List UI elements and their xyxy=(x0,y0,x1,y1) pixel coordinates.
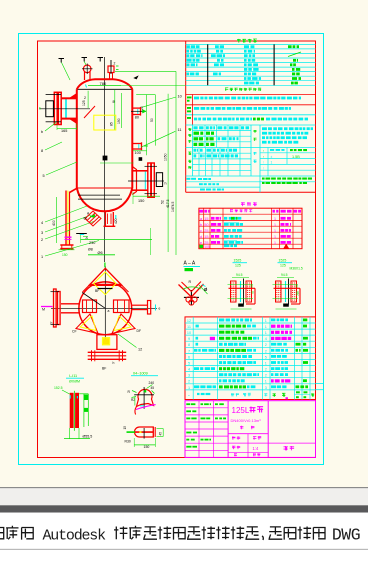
flange: left plate with dot fill xyxy=(276,281,282,302)
cyan tick top left shell xyxy=(86,85,87,88)
detail handhole: green bracket right xyxy=(157,428,164,430)
svg-text:04–1009: 04–1009 xyxy=(133,372,148,376)
black baseline under hatch xyxy=(76,233,87,235)
svg-text:Autodesk: Autodesk xyxy=(43,528,107,545)
svg-text:1: 1 xyxy=(274,223,276,227)
status: comma xyxy=(262,536,263,540)
svg-text:52: 52 xyxy=(296,292,300,296)
svg-text:2: 2 xyxy=(84,96,86,100)
svg-text:↑: ↑ xyxy=(263,149,265,153)
top view: green tick above lug xyxy=(104,263,106,268)
flange: red right bracket xyxy=(299,288,301,304)
svg-text:e: e xyxy=(159,307,161,311)
svg-text:45: 45 xyxy=(159,432,163,436)
manhole weld flare bottom xyxy=(70,119,77,124)
svg-text:1050: 1050 xyxy=(164,153,168,161)
BOM: magenta blob row4 col2 xyxy=(210,337,215,340)
svg-text:1474.5: 1474.5 xyxy=(171,202,175,212)
nozzle table: col lines xyxy=(203,208,205,249)
svg-text:1: 1 xyxy=(265,361,267,365)
top view: gusset LL xyxy=(76,314,98,334)
svg-text:417.5: 417.5 xyxy=(166,199,170,208)
nozzle table: cyan underline marks xyxy=(224,222,239,224)
svg-text:±: ± xyxy=(271,155,273,159)
svg-text:60: 60 xyxy=(84,217,88,221)
svg-text:8: 8 xyxy=(188,343,190,347)
svg-text:230: 230 xyxy=(89,241,95,245)
svg-text:h: h xyxy=(51,321,53,325)
top nozzle a: flange circle with cross xyxy=(83,65,91,73)
material table: left col separator xyxy=(192,125,194,176)
top view: horizontal centerline xyxy=(51,307,157,309)
svg-text:R: R xyxy=(189,280,192,284)
svg-text:1: 1 xyxy=(274,229,276,233)
detail handhole: bottom dim xyxy=(134,444,155,446)
detail I-I: green label blobs xyxy=(84,395,88,401)
top view: lug inner yellow rhombus xyxy=(94,272,117,295)
title block: scale cells xyxy=(232,436,240,439)
detail I-I: bottom extension lines xyxy=(69,428,71,439)
front view: bottom tangent xyxy=(77,187,133,189)
svg-text:Ø6: Ø6 xyxy=(98,251,103,255)
svg-text:6: 6 xyxy=(188,355,190,359)
nozzle 100: green hline under xyxy=(133,150,147,152)
material table: cols sec2 cyan xyxy=(198,148,200,177)
svg-text:1: 1 xyxy=(274,241,276,245)
svg-text:d: d xyxy=(200,235,202,239)
nozzle table: row lines xyxy=(199,213,302,215)
svg-text:2: 2 xyxy=(265,343,267,347)
svg-text:15: 15 xyxy=(123,426,127,430)
detail 04-1009: red bell shape xyxy=(137,389,154,406)
black mark near right wall xyxy=(139,157,143,161)
manhole left: flange cap lines black xyxy=(46,94,61,96)
green hline at y163 xyxy=(100,162,134,164)
svg-text:1: 1 xyxy=(188,386,190,390)
lower right nozzle: black bolt rect xyxy=(156,173,162,187)
top view: lug base thick xyxy=(90,284,122,286)
top view: support column xyxy=(97,335,117,350)
detail handhole: yellow tick xyxy=(139,431,141,433)
flange: red right bracket xyxy=(254,288,256,304)
status: paper bottom edge xyxy=(0,487,368,488)
lower right nozzle: neck xyxy=(132,170,147,172)
title block: right vertical xyxy=(267,401,269,458)
svg-text:1: 1 xyxy=(265,325,267,329)
svg-text:150: 150 xyxy=(138,199,144,203)
skirt leg yellow center xyxy=(67,191,69,246)
material table: right cyan grid xyxy=(260,147,316,149)
nozzle right 80: cyan tick xyxy=(137,109,139,114)
dim 780: green line xyxy=(88,85,121,87)
svg-text:25: 25 xyxy=(204,229,208,233)
status: bottom area xyxy=(0,550,368,564)
material table: bottom rows cyan xyxy=(186,181,316,183)
weld hatch square at bottom head xyxy=(85,211,101,226)
BOM table: cyan row lines xyxy=(185,322,316,324)
top view: support inner yellow xyxy=(103,338,109,344)
svg-text:240: 240 xyxy=(149,381,155,385)
skirt base: green dim under xyxy=(59,249,75,251)
detail I-I: green dim bracket right xyxy=(83,394,85,427)
svg-text:e: e xyxy=(200,241,202,245)
top view: left nozzle pipe xyxy=(61,303,80,305)
top view: circle xyxy=(79,282,132,335)
svg-text:7: 7 xyxy=(188,349,190,353)
lower right nozzle: flange plates xyxy=(148,163,151,197)
svg-text:3: 3 xyxy=(265,386,267,390)
parameter table: col2 values cyan xyxy=(215,45,219,48)
BOM table: cyan col lines xyxy=(192,317,194,400)
svg-text:1: 1 xyxy=(274,235,276,239)
flange: red mid horizontal xyxy=(229,287,256,289)
svg-text:1: 1 xyxy=(265,319,267,323)
svg-text:BF: BF xyxy=(95,289,99,293)
top nozzle b: body xyxy=(108,66,114,73)
svg-text:1525: 1525 xyxy=(234,259,242,263)
parameter table green slash xyxy=(288,52,301,57)
top view: lug black cross xyxy=(98,288,113,290)
svg-text:12: 12 xyxy=(138,348,142,352)
title block: left cell green texts xyxy=(186,403,190,405)
BOM table: red border xyxy=(185,317,316,400)
detail handhole: inner red vline xyxy=(152,427,154,437)
svg-text:▪: ▪ xyxy=(188,394,189,398)
dim 195 inside shell xyxy=(114,90,116,130)
skirt base plate xyxy=(60,244,73,246)
material table: left col green vertical glyphs xyxy=(188,128,191,131)
detail 04-1009: cyan tick xyxy=(140,405,144,407)
svg-text:125: 125 xyxy=(280,264,286,268)
manhole left: neck xyxy=(61,97,77,99)
yellow inspection rectangle xyxy=(94,115,116,130)
svg-text:BF: BF xyxy=(102,367,106,371)
top view: right nozzle pipe xyxy=(132,304,148,306)
bottom nozzle (right of centerline) xyxy=(104,212,106,226)
front view: shell right wall xyxy=(131,89,133,188)
manhole weld flare top xyxy=(70,94,77,99)
title block: right cell text xyxy=(284,446,295,450)
top view: left flange bolt lines xyxy=(51,291,60,293)
status: chinese message glyphs xyxy=(0,528,4,540)
svg-text:420: 420 xyxy=(114,218,118,224)
ext line x146.6 xyxy=(146,95,148,156)
svg-text:10: 10 xyxy=(178,95,182,99)
svg-text:M36X1.5: M36X1.5 xyxy=(290,267,303,271)
nozzle table: title magenta xyxy=(241,202,257,206)
svg-text:CF: CF xyxy=(72,330,77,334)
svg-text:100: 100 xyxy=(135,151,141,155)
svg-text:h: h xyxy=(113,361,115,365)
front view: top head dome xyxy=(77,79,133,89)
status: dark band xyxy=(0,505,368,512)
svg-text:a: a xyxy=(108,309,110,313)
top view: pad right xyxy=(114,300,130,313)
title block: left rows xyxy=(185,407,228,409)
status: divider xyxy=(0,549,368,550)
svg-text:80: 80 xyxy=(135,115,139,119)
svg-text:5: 5 xyxy=(265,355,267,359)
svg-text:3: 3 xyxy=(188,374,190,378)
flange: bottom black tick xyxy=(283,304,289,307)
lower right nozzle: gasket cyan xyxy=(144,172,146,190)
svg-text:2: 2 xyxy=(265,349,267,353)
flange: right plate with dot fill xyxy=(291,281,297,302)
svg-text:165: 165 xyxy=(61,129,67,133)
material table: cell texts sec2 xyxy=(194,149,197,152)
hline y94.6 xyxy=(136,94,155,96)
svg-text:190: 190 xyxy=(117,118,121,124)
dim 150 under nozzle xyxy=(133,195,160,197)
svg-text:4: 4 xyxy=(265,337,267,341)
BOM: cyan line extensions to frame xyxy=(316,382,324,384)
top view: base plates xyxy=(88,351,127,353)
svg-text:150: 150 xyxy=(144,445,150,449)
svg-text:3: 3 xyxy=(41,231,43,235)
section A-A: green angle arc xyxy=(183,287,201,290)
svg-text:1525: 1525 xyxy=(279,259,287,263)
title block: left cols xyxy=(198,401,200,458)
detail handhole: capsule xyxy=(135,427,154,437)
nozzle right 80: stub xyxy=(132,107,141,109)
svg-text:45: 45 xyxy=(151,386,155,390)
material table: rows sec2 cyan xyxy=(193,152,252,154)
dim 285 xyxy=(121,93,123,128)
svg-text:ØXØM: ØXØM xyxy=(69,380,80,384)
top view: pad left xyxy=(83,300,97,313)
status: light gray strip xyxy=(0,488,368,505)
svg-text:4: 4 xyxy=(41,221,43,225)
skirt leg inner line xyxy=(69,192,71,246)
svg-text:I–I11: I–I11 xyxy=(69,374,77,378)
svg-text:152.5: 152.5 xyxy=(54,386,63,390)
front view: top tangent line xyxy=(77,88,133,90)
ext vline x150 xyxy=(150,228,152,255)
weld X diagonal xyxy=(84,106,95,118)
nozzle table: red border xyxy=(199,208,302,249)
green arrow tick xyxy=(143,110,147,114)
detail I-I: cyan ticks xyxy=(69,395,71,398)
material table: rows sec1 cyan xyxy=(193,130,252,132)
parameter table: col1 labels cyan xyxy=(187,45,190,48)
svg-text:1: 1 xyxy=(265,380,267,384)
nozzle table: red triangle xyxy=(284,245,288,249)
svg-text:A – A: A – A xyxy=(184,261,196,267)
svg-text:15: 15 xyxy=(204,235,208,239)
top view: left flange plates xyxy=(54,289,57,327)
svg-text:125: 125 xyxy=(82,100,86,106)
notes: left col green marks xyxy=(187,97,192,99)
svg-text:b: b xyxy=(39,107,41,111)
svg-text:1: 1 xyxy=(265,331,267,335)
bottom nozzle cyan tick xyxy=(115,215,117,219)
dim 230 xyxy=(81,239,153,241)
top view: gusset LR xyxy=(112,314,135,334)
flange: bolt centerline black xyxy=(288,279,290,305)
cyan outer frame xyxy=(19,34,324,465)
svg-text:1: 1 xyxy=(271,161,273,165)
flange: right plate with dot fill xyxy=(246,281,252,302)
svg-text:50: 50 xyxy=(150,118,154,122)
svg-text:150: 150 xyxy=(62,253,68,257)
svg-text:c: c xyxy=(200,229,202,233)
svg-text:2: 2 xyxy=(41,238,43,242)
magenta patch on leg xyxy=(65,236,72,238)
svg-text:1:4: 1:4 xyxy=(253,446,259,451)
tables block: left red edge xyxy=(185,41,187,192)
top nozzle b: black stem xyxy=(110,60,112,74)
flange: top dim xyxy=(277,277,294,279)
notes: section borders red xyxy=(186,94,316,96)
detail handhole: black vertical centerline xyxy=(143,428,145,439)
svg-text:↑: ↑ xyxy=(263,166,265,170)
detail I-I: green centerline xyxy=(73,391,75,431)
svg-text:11: 11 xyxy=(178,128,182,132)
leader to 11 xyxy=(141,131,175,147)
svg-text:b: b xyxy=(41,130,43,134)
black level mark square xyxy=(103,156,108,161)
top view: right gasket tick xyxy=(155,305,157,311)
svg-text:1: 1 xyxy=(41,255,43,259)
svg-text:94.5: 94.5 xyxy=(236,273,243,277)
svg-text:h: h xyxy=(165,182,167,186)
nozzle table: last row xyxy=(199,245,203,248)
top view: leader 12 xyxy=(118,334,137,348)
chain line x168 xyxy=(167,94,169,252)
flange: green cross hlines xyxy=(273,284,299,286)
svg-text:125: 125 xyxy=(235,264,241,268)
notes: cyan paragraph rows xyxy=(194,97,199,100)
top view: vertical centerline xyxy=(104,266,106,344)
material table: cols sec1 cyan xyxy=(204,125,206,148)
top view: right flange xyxy=(148,301,151,315)
flange: bottom dim xyxy=(231,308,252,310)
front view: bottom head dish xyxy=(77,188,133,211)
nozzle table: header texts xyxy=(199,210,203,213)
material table: right paragraph cyan xyxy=(262,127,267,130)
flange: green cross hlines xyxy=(228,284,254,286)
top view: diagonal radius black xyxy=(82,293,105,309)
red drawing border xyxy=(38,41,316,458)
section A-A: scallop circles xyxy=(186,297,191,302)
top view: magenta mark xyxy=(41,306,53,308)
flange: left plate with dot fill xyxy=(231,281,237,302)
svg-text:1: 1 xyxy=(274,217,276,221)
svg-text:85: 85 xyxy=(110,122,114,126)
parameter table: col3 labels cyan xyxy=(244,45,249,48)
svg-text:Ø8: Ø8 xyxy=(88,248,93,252)
material table: right red edge xyxy=(315,125,317,192)
detail 04-1009: green marks xyxy=(147,385,153,389)
manhole left: bolt outline black xyxy=(46,101,54,117)
flange: red mid horizontal xyxy=(274,287,301,289)
svg-text:105: 105 xyxy=(204,245,210,249)
flange: bottom dim xyxy=(276,308,297,310)
material table: bottom red line xyxy=(186,191,316,193)
detail I-I: right red bar xyxy=(75,393,79,428)
svg-text:Ø55.5: Ø55.5 xyxy=(83,434,93,438)
manhole left: gasket cyan xyxy=(65,99,67,119)
svg-text:DWG: DWG xyxy=(332,526,360,545)
flange: bolt centerline black xyxy=(243,279,245,305)
nozzle table: green bits row1 xyxy=(231,217,235,220)
parameter table: green title xyxy=(237,39,257,43)
section A-A: leader + phi xyxy=(199,285,208,294)
top view: lifting lug triangle xyxy=(90,268,122,285)
leader to 10 xyxy=(142,97,176,107)
weld T symbols (black) xyxy=(59,58,65,60)
material table: green cell texts sec1 xyxy=(194,126,198,129)
title block: sheets row xyxy=(240,426,243,429)
manhole left: flange plates xyxy=(54,92,57,124)
ext line x155.3 xyxy=(154,95,156,146)
svg-text:125L: 125L xyxy=(232,406,250,415)
svg-text:M: M xyxy=(42,308,45,312)
section A-A: green mark under label xyxy=(185,268,194,271)
svg-text:2: 2 xyxy=(265,368,267,372)
manhole dim 165 xyxy=(57,127,77,129)
svg-text:9: 9 xyxy=(188,337,190,341)
detail 04-1009: magenta curve xyxy=(136,405,156,410)
detail 04-1009: black cross xyxy=(143,387,145,409)
svg-text:2: 2 xyxy=(265,374,267,378)
svg-text:5: 5 xyxy=(188,361,190,365)
svg-text:1.5B: 1.5B xyxy=(292,155,300,159)
material table: major cyan grid xyxy=(186,147,260,149)
svg-text:↑: ↑ xyxy=(263,161,265,165)
svg-text:R30: R30 xyxy=(125,440,131,444)
dim 400 left of skirt xyxy=(56,197,58,243)
svg-text:↑: ↑ xyxy=(263,155,265,159)
tech characteristics header green xyxy=(225,88,261,91)
material table: top cyan line xyxy=(186,124,316,126)
title block: outer magenta border xyxy=(185,401,316,458)
section A-A: black cross xyxy=(190,290,192,306)
svg-text:8: 8 xyxy=(41,149,43,153)
long green hline to chain top xyxy=(115,70,176,72)
parameter table: col4 values xyxy=(288,45,292,48)
svg-text:12: 12 xyxy=(187,319,191,323)
svg-text:11: 11 xyxy=(187,325,191,329)
svg-text:2: 2 xyxy=(188,380,190,384)
detail 04-1009: red tail xyxy=(135,407,137,415)
bottom head tangent lines black xyxy=(78,194,120,196)
svg-text:52: 52 xyxy=(160,200,164,204)
green tick right of 100 xyxy=(144,145,148,147)
nozzle right 100: stub xyxy=(132,143,142,145)
lower right nozzle: centerline xyxy=(128,180,164,182)
flange: top dim xyxy=(232,277,249,279)
flange: gasket cyan xyxy=(240,281,242,302)
section A-A: red V weld xyxy=(179,284,204,297)
status: white message area xyxy=(0,513,368,549)
skirt leg outer line xyxy=(65,191,67,246)
svg-text:DN400/V•0.13m³: DN400/V•0.13m³ xyxy=(231,418,262,423)
front view: shell left wall xyxy=(76,89,78,188)
svg-text:50: 50 xyxy=(204,223,208,227)
svg-text:5: 5 xyxy=(43,174,45,178)
parameter table: cyan row lines xyxy=(186,43,316,45)
cyan tick under baseline xyxy=(80,234,85,236)
top nozzle b: green ticks xyxy=(116,65,119,67)
chain line x176 xyxy=(175,71,177,255)
svg-text:DF: DF xyxy=(137,329,142,333)
leader from T to dome xyxy=(62,63,71,81)
parameter table: black column lines xyxy=(207,44,209,85)
skirt flare to shell xyxy=(70,188,77,192)
svg-text:400: 400 xyxy=(52,220,56,226)
title block: middle grid xyxy=(228,433,268,435)
